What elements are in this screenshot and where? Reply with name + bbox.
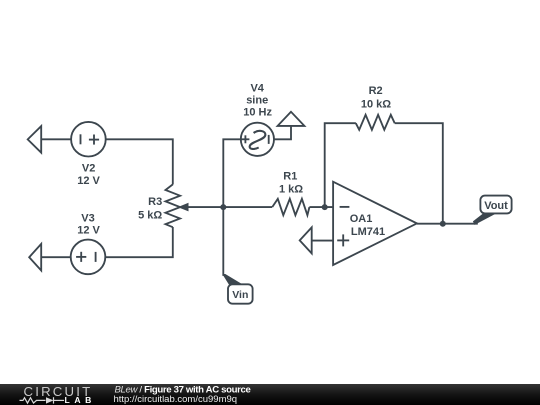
footer bar <box>0 384 540 405</box>
resistor R3 (pot body) <box>166 184 181 227</box>
op-amp OA1 body <box>333 182 417 265</box>
wire V3 to its flag <box>41 256 70 258</box>
wire R1 to op-amp inverting input <box>309 206 333 208</box>
wire V2 to R3 top <box>106 139 173 184</box>
R3 wiper arrow <box>178 203 189 212</box>
svg-text:1 kΩ: 1 kΩ <box>279 184 303 196</box>
Vin flag tail <box>222 274 244 285</box>
svg-text:R2: R2 <box>369 85 383 97</box>
svg-text:Vout: Vout <box>484 200 508 212</box>
svg-text:10 kΩ: 10 kΩ <box>361 98 391 110</box>
ground flag at op-amp + input <box>300 227 312 253</box>
voltage source V4 <box>241 123 274 156</box>
wire V2 flag to V2 <box>41 138 71 140</box>
ground flag above-right of V4 <box>278 112 305 126</box>
wire flag to + input <box>312 240 333 242</box>
svg-text:V4: V4 <box>250 83 264 95</box>
output wire <box>417 223 478 225</box>
resistor R2 <box>356 115 395 130</box>
labels <box>77 83 391 238</box>
voltage source V2 <box>71 122 106 157</box>
svg-text:5 kΩ: 5 kΩ <box>138 210 162 222</box>
voltage source V3 <box>71 240 106 275</box>
svg-text:10 Hz: 10 Hz <box>243 107 272 119</box>
feedback wire up from node A <box>325 123 356 207</box>
svg-text:Vin: Vin <box>232 289 248 301</box>
svg-text:V2: V2 <box>82 163 95 175</box>
Vout flag box <box>480 196 511 214</box>
wire R3 bottom to V3 <box>105 227 173 257</box>
svg-text:12 V: 12 V <box>77 175 100 187</box>
feedback wire down to output <box>395 123 443 224</box>
Vin flag box <box>228 284 253 303</box>
junction node A (R1/feedback) <box>322 204 328 210</box>
Vout flag tail <box>473 213 498 225</box>
svg-text:OA1: OA1 <box>350 213 373 225</box>
junction node at output <box>440 221 446 227</box>
svg-text:http://circuitlab.com/cu99m9q: http://circuitlab.com/cu99m9q <box>114 394 238 405</box>
junction node at Vin rail <box>220 204 226 210</box>
svg-text:12 V: 12 V <box>77 224 100 236</box>
wire V4 left to vertical input rail <box>223 139 241 276</box>
logo resistor-diode glyph <box>20 397 65 403</box>
op-amp minus sign <box>340 206 350 208</box>
svg-text:R3: R3 <box>148 196 162 208</box>
wiper wire of R3 to node <box>184 206 272 208</box>
svg-text:LM741: LM741 <box>351 226 385 238</box>
wire V4 right to up flag <box>274 126 291 139</box>
svg-text:sine: sine <box>246 95 268 107</box>
svg-text:V3: V3 <box>81 212 94 224</box>
svg-text:R1: R1 <box>283 171 297 183</box>
sine symbol inside V4 <box>250 131 266 149</box>
ground flag left of V2 <box>28 126 42 153</box>
resistor R1 <box>272 199 309 215</box>
svg-text:LAB: LAB <box>65 395 96 405</box>
ground flag left of V3 <box>29 244 41 271</box>
op-amp plus sign <box>337 239 349 241</box>
